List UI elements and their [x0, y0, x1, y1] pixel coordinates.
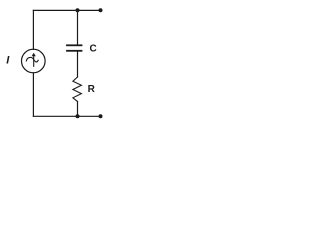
- wire bottom rail: [33, 115, 100, 117]
- wire left branch upper: [32, 10, 34, 49]
- svg-text:I: I: [6, 55, 10, 67]
- wire resistor bottom lead: [77, 102, 79, 117]
- wire capacitor-resistor link: [77, 52, 79, 77]
- node terminal bottom right: [99, 114, 103, 118]
- wire left branch lower: [32, 73, 34, 117]
- current source I (circle with arrow and sine tilde): [22, 49, 46, 73]
- wire top rail: [33, 9, 100, 11]
- svg-text:R: R: [88, 84, 96, 95]
- wire capacitor top lead: [77, 10, 79, 44]
- node junction top (C branch): [76, 8, 80, 12]
- node junction bottom (R branch): [76, 114, 80, 118]
- resistor R zigzag: [73, 77, 82, 102]
- capacitor C plates: [66, 44, 82, 51]
- svg-text:C: C: [90, 43, 97, 54]
- node terminal top right: [99, 8, 103, 12]
